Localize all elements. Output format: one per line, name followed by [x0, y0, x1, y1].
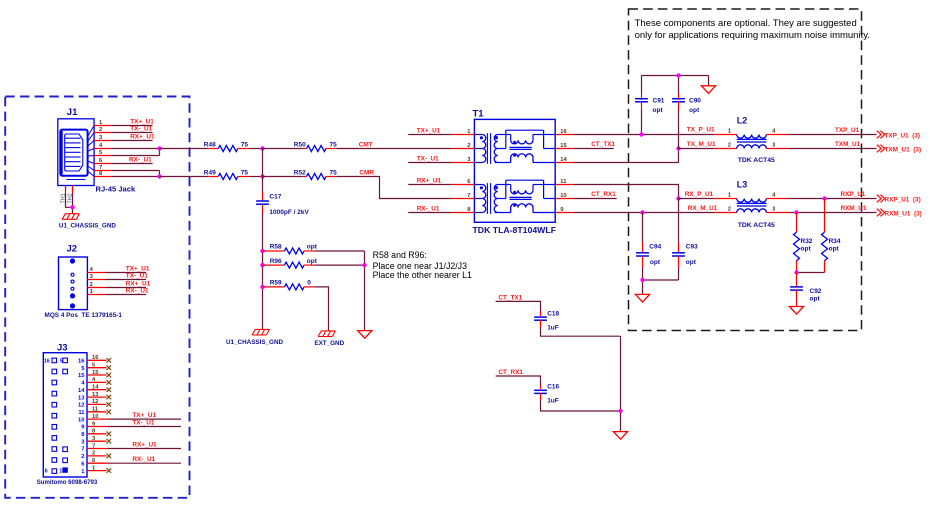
inductor L2 TDK ACT45 common mode choke	[679, 129, 790, 149]
J3 pin 1 no-connect	[81, 465, 111, 474]
svg-text:R58 and R96:: R58 and R96:	[373, 250, 427, 260]
transformer T1 TDK TLA-8T104WLF	[474, 119, 555, 222]
svg-text:RX_M_U1: RX_M_U1	[688, 205, 718, 212]
capacitor C18 1uF net CT_TX1	[496, 294, 621, 336]
svg-text:75: 75	[241, 169, 249, 176]
svg-text:15: 15	[78, 373, 85, 379]
junction J1 pins 7-8	[157, 174, 161, 178]
svg-text:Sumitomo 6098-6793: Sumitomo 6098-6793	[37, 479, 98, 486]
svg-text:0: 0	[307, 280, 311, 287]
svg-text:16: 16	[78, 359, 85, 365]
junction C90 top	[676, 73, 680, 77]
wire L3 pin 4 RXP_U1 output	[789, 191, 877, 199]
svg-text:U1_CHASSIS_GND: U1_CHASSIS_GND	[226, 339, 283, 346]
svg-text:13: 13	[92, 392, 99, 398]
svg-text:CT_TX1: CT_TX1	[498, 294, 522, 301]
net label RX+_U1 at J1 pin 3	[112, 134, 155, 141]
svg-text:14: 14	[560, 157, 567, 163]
wire T1 pin 11 to RX_P node	[574, 185, 679, 199]
J3 pin 4 no-connect	[81, 377, 111, 386]
svg-text:TDK TLA-8T104WLF: TDK TLA-8T104WLF	[473, 225, 557, 235]
J1 pin fan lines	[88, 126, 95, 177]
wire C94 C93 bottoms to ground	[643, 280, 679, 294]
resistor R48 75	[160, 141, 263, 151]
svg-text:R50: R50	[294, 141, 306, 148]
net label CT_TX1 at T1 pin 15	[574, 141, 616, 149]
J2 value MQS 4 Pos TE 1379165-1	[45, 312, 123, 319]
svg-text:15: 15	[560, 143, 567, 149]
wire TH1 TH2 to chassis ground	[66, 193, 73, 213]
svg-text:RX+_U1: RX+_U1	[126, 280, 151, 287]
connector section dashed box	[5, 97, 189, 498]
L2 reference label	[737, 115, 748, 125]
svg-text:MQS 4 Pos TE 1379165-1: MQS 4 Pos TE 1379165-1	[45, 312, 123, 319]
svg-text:16: 16	[44, 359, 50, 365]
svg-text:2: 2	[728, 143, 731, 149]
connector J1 RJ-45 jack	[58, 119, 94, 186]
J3 pin 14 no-connect	[78, 385, 111, 394]
svg-text:RX-_U1: RX-_U1	[129, 157, 152, 164]
junction TH node	[70, 205, 74, 209]
off-page connector RXP_U1	[877, 195, 921, 204]
svg-text:C90: C90	[689, 98, 701, 105]
svg-text:1000pF / 2kV: 1000pF / 2kV	[269, 209, 309, 216]
wire L3 pin 3 RXM_U1 output	[789, 205, 877, 213]
note R58 R96 placement	[373, 250, 472, 280]
svg-text:R52: R52	[294, 169, 306, 176]
off-page connector RXM_U1	[877, 209, 922, 218]
svg-text:2: 2	[728, 207, 731, 213]
svg-text:RXP_U1 (3): RXP_U1 (3)	[885, 196, 921, 203]
svg-text:TX-_U1: TX-_U1	[126, 272, 148, 279]
J3 pin 11 no-connect	[78, 407, 111, 416]
capacitor C93 opt	[672, 199, 698, 281]
svg-text:opt: opt	[689, 107, 700, 114]
svg-text:5: 5	[60, 359, 63, 365]
svg-text:75: 75	[330, 169, 338, 176]
J3 pin 13 no-connect	[78, 392, 111, 401]
net label RX-_U1 at J1 pin 6	[112, 157, 153, 164]
svg-text:RX+_U1: RX+_U1	[130, 134, 155, 141]
svg-text:T1: T1	[473, 108, 485, 119]
svg-text:R32: R32	[801, 238, 813, 245]
inductor L3 TDK ACT45 common mode choke	[679, 193, 790, 213]
J2 pin 2 net RX+_U1	[87, 280, 150, 288]
resistor R58 opt	[260, 244, 364, 254]
svg-text:12: 12	[78, 403, 84, 409]
svg-text:2: 2	[99, 127, 102, 133]
J3 value Sumitomo 6098-6793	[37, 479, 98, 486]
svg-text:16: 16	[560, 129, 567, 135]
net label RX+_U1 at T1 pin 6	[408, 177, 451, 184]
svg-text:L3: L3	[737, 179, 748, 189]
svg-text:J2: J2	[67, 244, 78, 255]
capacitor C17 1000pF / 2kV	[256, 149, 309, 330]
svg-text:opt: opt	[829, 245, 840, 252]
svg-text:CT_RX1: CT_RX1	[498, 369, 523, 376]
svg-text:7: 7	[467, 193, 470, 199]
svg-text:CMT: CMT	[359, 141, 373, 148]
svg-text:opt: opt	[307, 258, 318, 265]
svg-text:12: 12	[92, 399, 98, 405]
svg-text:11: 11	[92, 407, 99, 413]
resistor R32 opt	[794, 213, 813, 273]
svg-text:R58: R58	[270, 244, 282, 251]
svg-text:opt: opt	[686, 259, 697, 266]
svg-text:2: 2	[81, 454, 84, 460]
wire T1 pin 16 TX_P to L2	[574, 127, 715, 135]
junction RXP R34	[822, 196, 826, 200]
svg-text:TX+_U1: TX+_U1	[132, 412, 156, 419]
wire L2 pin 4 TXP_U1 output	[789, 127, 877, 135]
svg-text:TX+_U1: TX+_U1	[130, 119, 154, 126]
svg-text:opt: opt	[650, 259, 661, 266]
svg-text:opt: opt	[810, 296, 821, 303]
wire C91 C90 tops to ground	[642, 76, 709, 86]
svg-text:TDK ACT45: TDK ACT45	[738, 157, 775, 164]
net label TX-_U1 at T1 pin 3	[408, 155, 451, 162]
J1 pin stubs and numbers	[94, 120, 112, 177]
svg-text:C18: C18	[547, 310, 559, 317]
off-page connector TXM_U1	[877, 145, 921, 154]
svg-text:These components are optional.: These components are optional. They are …	[635, 18, 857, 29]
svg-text:TDK ACT45: TDK ACT45	[738, 222, 775, 229]
off-page connector TXP_U1	[877, 131, 920, 140]
svg-text:EXT_GND: EXT_GND	[314, 340, 344, 347]
svg-text:C91: C91	[653, 98, 665, 105]
T1 reference label	[473, 108, 485, 119]
wire T1 pin 14 to C90 node TX_M	[574, 149, 679, 163]
wire L2 pin 3 TXM_U1 output	[789, 141, 877, 149]
capacitor C94 opt	[636, 213, 662, 281]
svg-text:TXP_U1: TXP_U1	[835, 127, 860, 134]
J3 pin 5 no-connect	[81, 363, 111, 372]
J3 pin 12 no-connect	[78, 399, 111, 408]
svg-text:RJ-45 Jack: RJ-45 Jack	[96, 185, 136, 194]
J1 reference label	[67, 107, 78, 118]
resistor R34 opt	[797, 199, 841, 273]
J3 pin 8 no-connect	[81, 429, 111, 438]
J3 reference label	[57, 342, 68, 353]
J3 pin 7 net RX+_U1	[81, 441, 181, 452]
svg-text:RX-_U1: RX-_U1	[417, 205, 440, 212]
J2 pin 4 net TX+_U1	[87, 265, 149, 273]
svg-text:TXM_U1: TXM_U1	[835, 141, 861, 148]
svg-text:RX-_U1: RX-_U1	[132, 456, 155, 463]
svg-text:RXM_U1: RXM_U1	[841, 205, 867, 212]
svg-text:75: 75	[330, 141, 338, 148]
svg-text:2: 2	[90, 282, 93, 288]
junction R32 R34 C92	[794, 270, 798, 274]
capacitor C92 opt	[790, 273, 822, 307]
wire J1 pin 4 to R48	[112, 148, 160, 150]
L3 value TDK ACT45	[738, 222, 775, 229]
svg-text:14: 14	[92, 385, 99, 391]
svg-text:10: 10	[92, 414, 98, 420]
svg-text:RX-_U1: RX-_U1	[126, 287, 149, 294]
svg-text:opt: opt	[653, 107, 664, 114]
net label RX-_U1 at T1 pin 8	[408, 205, 451, 212]
svg-text:RXP_U1: RXP_U1	[841, 191, 866, 198]
svg-text:TXM_U1 (3): TXM_U1 (3)	[885, 146, 922, 153]
wire J1 pin 8 to R49	[112, 176, 160, 178]
ground symbol EXT side	[358, 331, 372, 339]
svg-text:C16: C16	[547, 383, 559, 390]
junction TX_M C90	[676, 146, 680, 150]
svg-text:R96: R96	[270, 258, 282, 265]
J1 mounting holes TH1 TH2	[60, 186, 73, 204]
svg-text:11: 11	[560, 179, 567, 185]
junction C94 ground	[640, 278, 644, 282]
svg-text:J1: J1	[67, 107, 78, 118]
svg-text:1uF: 1uF	[547, 325, 559, 332]
svg-text:C92: C92	[810, 288, 822, 295]
J2 pin 3 net TX-_U1	[87, 272, 148, 280]
wire J1 pin 7 down to pin 8 node	[112, 171, 160, 177]
svg-text:C93: C93	[686, 244, 698, 251]
J3 pin 2 no-connect	[81, 451, 111, 460]
svg-text:RX+_U1: RX+_U1	[132, 441, 157, 448]
J3 pin 15 no-connect	[78, 370, 111, 379]
junction RXM R32	[794, 210, 798, 214]
svg-text:2: 2	[92, 451, 95, 457]
junction R48-C17	[260, 146, 264, 150]
svg-text:11: 11	[78, 410, 85, 416]
net label TX-_U1 at J1 pin 2	[112, 126, 153, 133]
net label CT_RX1 at T1 pin 10	[574, 191, 617, 199]
capacitor C90 opt	[672, 76, 701, 149]
capacitor C91 opt	[635, 76, 665, 135]
svg-text:R34: R34	[829, 238, 841, 245]
wire J1 pin 5 up to pin 4 node	[112, 149, 160, 156]
J3 pin 10 net TX+_U1	[78, 412, 181, 423]
ground at C94	[635, 294, 649, 302]
optional components dashed box	[629, 9, 862, 331]
svg-text:C94: C94	[649, 244, 661, 251]
junction RX_P C93	[676, 196, 680, 200]
svg-text:16: 16	[92, 355, 99, 361]
J3 pin 6 net RX-_U1	[81, 456, 181, 467]
chassis ground U1_CHASSIS_GND at C17	[226, 329, 283, 345]
resistor R52 75 net CMR	[263, 169, 452, 198]
svg-text:TX-_U1: TX-_U1	[132, 419, 154, 426]
svg-text:CMR: CMR	[359, 169, 374, 176]
junction R49-C17	[260, 174, 264, 178]
junction J1 pins 4-5	[157, 146, 161, 150]
svg-text:Place the other nearer L1: Place the other nearer L1	[373, 270, 472, 280]
wire RX_P to L3	[685, 191, 714, 198]
svg-text:TX+_U1: TX+_U1	[417, 127, 441, 134]
svg-text:R59: R59	[270, 280, 282, 287]
junction C16 ground wire	[618, 409, 622, 413]
svg-text:6: 6	[45, 468, 48, 474]
ground at C92	[789, 307, 803, 315]
svg-text:TX+_U1: TX+_U1	[126, 265, 150, 272]
svg-text:TX_M_U1: TX_M_U1	[687, 141, 716, 148]
svg-text:RX_P_U1: RX_P_U1	[685, 191, 714, 198]
svg-text:2: 2	[467, 143, 470, 149]
svg-text:R48: R48	[204, 141, 216, 148]
wire T1 pin 9 RX_M to L3	[574, 205, 718, 213]
svg-text:7: 7	[81, 447, 84, 453]
T1 left pin stubs	[451, 129, 474, 213]
net label TX+_U1 at T1 pin 1	[408, 127, 451, 134]
resistor R50 75 net CMT	[263, 141, 452, 151]
svg-text:TX-_U1: TX-_U1	[417, 155, 439, 162]
J3 pin 9 net TX-_U1	[81, 419, 181, 430]
svg-text:13: 13	[78, 395, 85, 401]
ground at C90	[701, 86, 715, 94]
svg-text:C17: C17	[269, 193, 281, 200]
svg-text:RXM_U1 (3): RXM_U1 (3)	[885, 210, 922, 217]
svg-text:opt: opt	[801, 245, 812, 252]
svg-text:1uF: 1uF	[547, 398, 559, 405]
svg-text:CT_TX1: CT_TX1	[591, 141, 615, 148]
svg-text:1: 1	[59, 468, 62, 474]
resistor R49 75	[160, 169, 263, 179]
svg-text:10: 10	[560, 193, 566, 199]
svg-text:7: 7	[92, 443, 95, 449]
svg-text:75: 75	[241, 141, 249, 148]
svg-text:U1_CHASSIS_GND: U1_CHASSIS_GND	[59, 222, 116, 229]
svg-text:TX-_U1: TX-_U1	[130, 126, 152, 133]
L2 value TDK ACT45	[738, 157, 775, 164]
ground at C18 C16	[613, 432, 627, 440]
svg-text:RX+_U1: RX+_U1	[417, 177, 442, 184]
connector J3	[43, 353, 87, 477]
T1 value TDK TLA-8T104WLF	[473, 225, 557, 235]
svg-text:14: 14	[78, 388, 85, 394]
junction C91 TX_P	[639, 132, 643, 136]
junction RX_M C94	[640, 210, 644, 214]
svg-text:R49: R49	[204, 169, 216, 176]
J1 value RJ-45 Jack	[96, 185, 136, 194]
svg-text:CT_RX1: CT_RX1	[591, 191, 616, 198]
J2 pin 1 net RX-_U1	[87, 287, 149, 295]
T1 right pin stubs	[555, 129, 574, 213]
svg-text:only for applications requirin: only for applications requiring maximum …	[635, 30, 870, 41]
L3 reference label	[737, 179, 748, 189]
wire R58 R96 to ground	[362, 251, 366, 331]
resistor R59 0	[260, 280, 328, 331]
wire C18 C16 common to ground	[620, 336, 622, 431]
svg-text:opt: opt	[307, 244, 318, 251]
resistor R96 opt	[260, 258, 364, 268]
net label TX+_U1 at J1 pin 1	[112, 119, 154, 126]
capacitor C16 1uF net CT_RX1	[496, 369, 621, 411]
J3 pin 3 no-connect	[81, 436, 111, 445]
J2 reference label	[67, 244, 78, 255]
svg-text:L2: L2	[737, 115, 748, 125]
wire TX_M to L2	[687, 141, 716, 148]
svg-text:10: 10	[78, 417, 84, 423]
J3 pin 16 no-connect	[78, 355, 111, 364]
svg-text:TX_P_U1: TX_P_U1	[687, 127, 715, 134]
svg-text:J3: J3	[57, 342, 68, 353]
note optional components	[635, 18, 870, 41]
svg-text:15: 15	[92, 370, 99, 376]
chassis ground EXT_GND	[314, 331, 344, 347]
chassis ground U1_CHASSIS_GND at J1	[59, 214, 116, 230]
svg-text:TXP_U1 (3): TXP_U1 (3)	[885, 132, 921, 139]
connector J2	[59, 257, 88, 310]
